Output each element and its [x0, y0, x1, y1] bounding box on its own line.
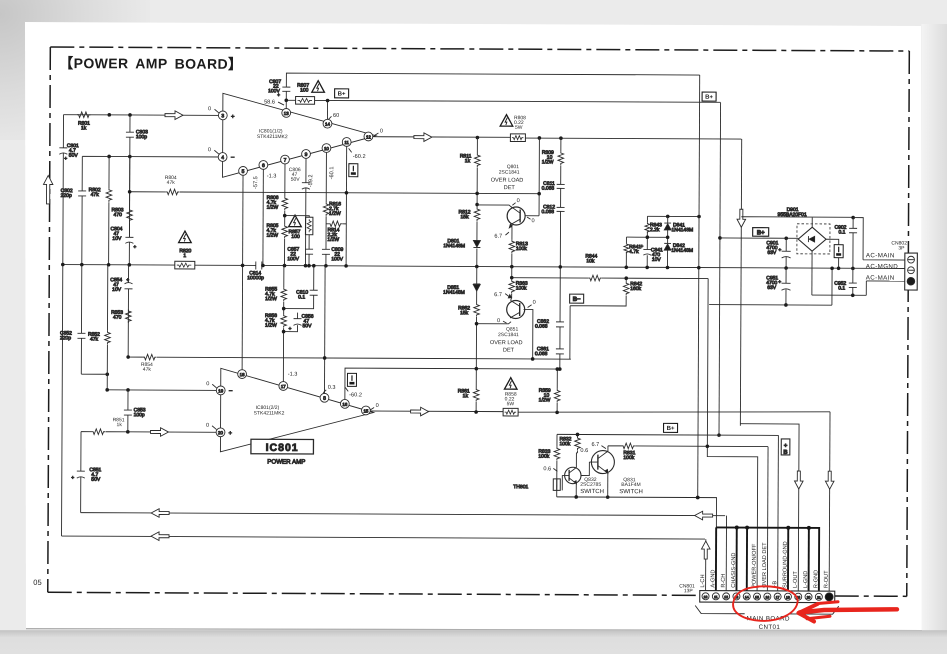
signal arrow down	[737, 209, 746, 227]
svg-text:3: 3	[221, 113, 224, 119]
capacitor C852	[60, 331, 86, 342]
junction node	[745, 526, 749, 530]
capacitor C804	[110, 226, 136, 250]
svg-text:+: +	[277, 93, 280, 99]
wire L-OUT route	[740, 424, 799, 592]
node 6.7V	[591, 442, 606, 449]
svg-text:+: +	[231, 114, 235, 120]
resistor R855	[265, 286, 286, 302]
svg-text:47k: 47k	[143, 367, 152, 373]
junction node	[538, 136, 542, 140]
svg-text:1k: 1k	[465, 158, 471, 164]
capacitor C901	[766, 238, 790, 268]
pin 16	[340, 399, 349, 408]
svg-text:2SC2785: 2SC2785	[580, 482, 601, 488]
svg-text:20: 20	[807, 596, 811, 600]
pin 3	[218, 111, 235, 120]
svg-text:60: 60	[333, 113, 339, 119]
warning triangle R807	[312, 81, 325, 93]
pin 13	[282, 108, 291, 117]
resistor R816	[323, 201, 341, 217]
capacitor C806 label	[289, 167, 301, 183]
svg-text:BA1F4M: BA1F4M	[621, 482, 640, 488]
signal arrow down R-OUT	[825, 471, 834, 489]
svg-text:12: 12	[724, 595, 728, 599]
junction node	[475, 322, 479, 326]
resistor R842	[570, 278, 643, 360]
svg-text:100: 100	[300, 87, 309, 93]
junction node	[476, 136, 480, 140]
signal arrow left	[151, 532, 169, 541]
svg-text:POWER-ON/OFF: POWER-ON/OFF	[752, 543, 758, 588]
svg-text:10V: 10V	[112, 287, 122, 293]
wire pin7 column	[284, 164, 286, 265]
wire rail-3 y=293.5	[812, 281, 866, 296]
svg-text:63V: 63V	[767, 285, 777, 291]
IC label	[257, 128, 288, 140]
junction node	[807, 526, 811, 530]
pin 12	[364, 132, 373, 141]
main bus wire (y=266.6 level)	[63, 265, 905, 269]
node -60.2V pin11	[349, 148, 366, 160]
svg-text:R-OUT: R-OUT	[824, 570, 830, 588]
pin 11	[342, 138, 351, 147]
svg-text:47k: 47k	[167, 180, 176, 186]
svg-text:1k: 1k	[463, 393, 469, 399]
svg-text:-1.3: -1.3	[267, 174, 277, 180]
wire pin17 column	[282, 266, 285, 382]
svg-text:AC-MGND: AC-MGND	[866, 263, 899, 270]
signal arrow left R-CH	[695, 511, 713, 520]
junction node	[717, 433, 721, 437]
svg-text:10000p: 10000p	[247, 275, 264, 281]
wire pin13 column up + C807	[286, 73, 699, 110]
wire feedback line L1 (y=193.8 level at x=478)	[130, 189, 541, 197]
transistor Q832 (small)	[565, 467, 581, 483]
svg-text:STK4211MK2: STK4211MK2	[257, 134, 288, 140]
svg-text:0: 0	[497, 318, 500, 324]
node 0V pin20	[206, 423, 217, 430]
svg-text:0.1: 0.1	[298, 294, 305, 300]
svg-text:STK4211MK2: STK4211MK2	[254, 410, 285, 416]
op-amp IC801 2/2 triangle	[220, 368, 373, 452]
Q831 label	[619, 477, 643, 495]
junction node	[784, 266, 788, 270]
pin 8	[320, 393, 329, 402]
junction node	[241, 264, 245, 268]
signal arrow left	[151, 509, 169, 518]
svg-text:5: 5	[242, 169, 245, 175]
junction node	[323, 356, 327, 360]
Q832 label	[580, 477, 604, 495]
svg-text:0: 0	[376, 403, 379, 409]
junction node	[304, 264, 308, 268]
capacitor C803	[126, 115, 148, 157]
wire pin9 column + C806	[302, 158, 311, 265]
svg-text:220p: 220p	[60, 335, 71, 341]
svg-text:50V: 50V	[303, 323, 313, 329]
B+ box 3	[753, 228, 769, 237]
wire bridge right to I-box	[826, 239, 839, 268]
capacitor C811	[542, 181, 565, 192]
B+ box 5 vertical	[781, 439, 790, 456]
warning triangle R820	[179, 231, 192, 243]
resistor R811	[460, 153, 480, 167]
node 0V pin3	[208, 106, 219, 113]
node 0V pin4	[208, 147, 219, 154]
svg-text:1/2W: 1/2W	[265, 296, 277, 302]
wire pin5-pin18 column	[241, 175, 244, 369]
signal arrow up on left border	[43, 175, 53, 204]
wire pin8 column	[324, 266, 327, 393]
wire Q831 base link	[581, 462, 598, 476]
svg-text:18: 18	[786, 595, 790, 599]
transistor Q801	[507, 207, 525, 228]
svg-text:7: 7	[284, 158, 287, 164]
svg-text:11: 11	[714, 595, 718, 599]
junction node	[283, 264, 287, 268]
wire R811 column	[476, 137, 479, 266]
svg-text:1/2W: 1/2W	[266, 233, 278, 239]
signal arrow right	[411, 407, 429, 416]
op-amp IC801 1/2 triangle	[223, 93, 377, 178]
junction node	[697, 266, 701, 270]
svg-text:13P: 13P	[684, 588, 694, 594]
junction node	[784, 236, 788, 240]
svg-text:L-OUT: L-OUT	[793, 571, 799, 588]
pin 10	[322, 144, 331, 153]
svg-text:100p: 100p	[134, 412, 145, 418]
node 0V pin19	[206, 381, 217, 388]
wire pin11 L-GND thick	[808, 528, 810, 592]
junction node	[127, 263, 131, 267]
junction node	[284, 98, 288, 102]
wire R-ch input (y=433)	[81, 429, 221, 435]
transistor Q851	[507, 295, 525, 319]
capacitor C862	[535, 319, 564, 330]
svg-text:+: +	[71, 475, 74, 481]
wire pin12 line vertical x=740.8	[740, 139, 741, 426]
warning triangle R808	[500, 115, 513, 127]
thermistor TH801	[513, 479, 560, 491]
resistor R858 (box in output line)	[503, 408, 518, 416]
svg-text:0.6: 0.6	[543, 466, 551, 472]
svg-text:B+: B+	[757, 230, 765, 236]
svg-text:17: 17	[281, 384, 286, 389]
junction node	[282, 307, 286, 311]
border frame dash-dot	[48, 47, 910, 596]
junction node	[312, 264, 316, 268]
svg-text:15: 15	[755, 595, 759, 599]
capacitor C801	[58, 115, 80, 536]
pin 15	[361, 406, 370, 415]
svg-text:AC-MAIN: AC-MAIN	[866, 252, 895, 259]
svg-text:5W: 5W	[507, 401, 515, 407]
wire OVER LOAD DET route	[766, 447, 769, 592]
wire L-ch input (y=117 level)	[64, 114, 223, 117]
junction node	[646, 235, 650, 239]
svg-text:OVER LOAD DET: OVER LOAD DET	[762, 542, 768, 588]
resistor R862	[458, 303, 479, 317]
svg-text:955BA20F01: 955BA20F01	[778, 212, 807, 218]
resistor R856	[265, 313, 286, 329]
svg-text:1N4148M: 1N4148M	[443, 290, 465, 296]
capacitor C856	[288, 314, 313, 333]
svg-text:10V: 10V	[112, 236, 122, 242]
svg-text:470: 470	[114, 212, 123, 218]
wire R807 B+ line (y=101)	[286, 100, 720, 102]
junction node	[474, 410, 478, 414]
junction node	[475, 367, 479, 371]
svg-text:CHASIS-GND: CHASIS-GND	[731, 553, 737, 588]
svg-text:+: +	[288, 326, 291, 332]
wire C854 column	[127, 265, 129, 357]
svg-text:DET: DET	[503, 348, 515, 354]
junction node	[697, 215, 701, 219]
svg-text:0.068: 0.068	[542, 186, 555, 192]
capacitor C802	[61, 188, 87, 199]
svg-text:100: 100	[291, 234, 300, 240]
svg-text:AC-MAIN: AC-MAIN	[866, 275, 895, 282]
junction node	[696, 496, 700, 500]
junction node	[706, 444, 710, 448]
svg-text:1k: 1k	[81, 125, 87, 131]
resistor R863	[509, 280, 528, 294]
wire pin12 output line (y=137.5)	[373, 137, 742, 139]
resistor R831 (horizontal)	[621, 443, 635, 461]
node 58.6V	[264, 99, 284, 105]
GND bus thick	[716, 527, 819, 591]
junction node	[324, 264, 328, 268]
wire switch top line y=434	[557, 434, 778, 435]
wire AC-MAIN top line	[853, 218, 908, 260]
wire R809/C811/C812 column	[560, 138, 561, 369]
svg-text:0.068: 0.068	[535, 351, 548, 357]
wire +B route	[777, 435, 780, 591]
B- box	[570, 294, 584, 303]
svg-text:05: 05	[33, 578, 41, 587]
wire bridge top rail y=215.5	[741, 217, 853, 228]
B+ box 1	[335, 89, 349, 98]
svg-text:【POWER AMP BOARD】: 【POWER AMP BOARD】	[59, 55, 242, 72]
wire D841/D842 column	[666, 216, 668, 267]
junction node	[645, 266, 649, 270]
wire pin14 column	[326, 100, 328, 119]
junction node	[784, 303, 788, 307]
junction node	[126, 388, 130, 392]
junction node	[128, 190, 132, 194]
wire R852 column	[106, 265, 109, 390]
junction node	[531, 357, 535, 361]
svg-text:58.6: 58.6	[264, 99, 275, 105]
svg-text:A-GND: A-GND	[710, 570, 716, 588]
capacitor C853	[124, 390, 146, 432]
resistor R809	[542, 150, 564, 166]
resistor R802	[89, 187, 112, 202]
svg-text:CNT01: CNT01	[759, 624, 781, 631]
capacitor C807	[268, 79, 290, 99]
diode D851	[443, 284, 480, 296]
wire feedback line L2 (y=358.7)	[128, 354, 571, 362]
connector CN801 body	[700, 591, 835, 603]
IC label	[254, 405, 285, 417]
svg-text:2SC1841: 2SC1841	[499, 170, 520, 176]
wire R802 column	[108, 156, 111, 264]
svg-text:16: 16	[765, 595, 769, 599]
svg-text:0: 0	[517, 198, 520, 204]
svg-text:TH801: TH801	[513, 484, 528, 490]
warning triangle R857	[289, 215, 302, 227]
svg-text:20: 20	[218, 430, 223, 435]
svg-text:L-GND: L-GND	[803, 571, 809, 588]
pin 9	[302, 150, 311, 159]
junction node	[283, 214, 287, 218]
svg-text:100V: 100V	[287, 256, 299, 262]
resistor R804 label	[165, 175, 177, 186]
svg-text:100V: 100V	[331, 256, 343, 262]
pin 5	[239, 166, 248, 175]
wire pin2 A-GND thick	[715, 527, 717, 591]
wire B+ vertical x=719.5	[719, 102, 721, 435]
svg-text:21: 21	[817, 596, 821, 600]
svg-text:14: 14	[325, 122, 330, 127]
wire h-link y=215.5 to B+ vertical	[647, 215, 699, 217]
pin 6	[259, 161, 268, 170]
svg-text:19: 19	[218, 388, 223, 393]
svg-text:1: 1	[183, 253, 186, 259]
current box symbol	[834, 245, 843, 258]
svg-text:1/2W: 1/2W	[539, 397, 551, 403]
diode D841	[664, 222, 693, 233]
wire Q832 base link	[562, 475, 569, 490]
resistor R814 (horizontal)	[326, 221, 346, 243]
wire C852 branch	[81, 265, 108, 375]
svg-text:1/2W: 1/2W	[267, 205, 279, 211]
svg-text:10k: 10k	[586, 258, 595, 264]
wire R-ch return line (y=515.5)	[81, 513, 725, 516]
svg-text:0: 0	[533, 300, 536, 306]
svg-text:100k: 100k	[516, 246, 527, 252]
wire R-OUT route down	[828, 412, 831, 592]
wire C804 column	[128, 157, 131, 265]
svg-text:B−: B−	[573, 297, 581, 303]
junction node	[282, 330, 286, 334]
svg-text:17: 17	[776, 595, 780, 599]
wire Q832 emitter down	[575, 483, 577, 496]
svg-text:0: 0	[208, 147, 211, 153]
svg-text:2SC1841: 2SC1841	[498, 332, 519, 338]
svg-text:1/2W: 1/2W	[265, 323, 277, 329]
junction node	[326, 99, 330, 103]
junction node	[107, 155, 111, 159]
wire R843 column	[646, 216, 648, 267]
svg-text:100k: 100k	[559, 441, 570, 447]
svg-text:100k: 100k	[623, 455, 634, 461]
capacitor C857	[287, 247, 313, 263]
wire C856 branch	[284, 313, 298, 332]
IC801 name box	[251, 439, 314, 465]
wire bus-2 (y=277.5)	[512, 277, 708, 280]
junction node	[80, 263, 84, 267]
wire pin16 column + feed line (y=368.5)	[345, 368, 561, 400]
node 0V Q801 base	[527, 217, 535, 224]
svg-text:0.068: 0.068	[542, 209, 555, 215]
svg-text:6.7: 6.7	[494, 292, 502, 298]
node 0V pin12 out	[374, 129, 383, 136]
node 6.7V	[494, 232, 509, 240]
svg-text:47k: 47k	[90, 336, 99, 342]
junction node	[666, 235, 670, 239]
junction node	[606, 495, 610, 499]
capacitor C861	[535, 346, 564, 357]
svg-text:-59.2: -59.2	[308, 174, 314, 187]
svg-text:13: 13	[284, 111, 289, 116]
svg-text:-60.2: -60.2	[349, 392, 362, 398]
junction node	[537, 192, 541, 196]
junction node	[108, 113, 112, 117]
junction node	[307, 264, 311, 268]
svg-text:0: 0	[531, 218, 534, 224]
svg-text:DET: DET	[504, 185, 516, 191]
current box symbol	[349, 164, 358, 177]
wire bottom rail y=303.5	[709, 268, 832, 305]
svg-text:5W: 5W	[515, 125, 523, 131]
svg-text:1/2W: 1/2W	[329, 211, 341, 217]
signal arrow right	[165, 111, 183, 120]
capacitor C812	[542, 204, 565, 215]
svg-text:9: 9	[305, 152, 308, 158]
svg-text:4: 4	[221, 155, 224, 161]
junction node	[128, 113, 132, 117]
junction node	[718, 236, 722, 240]
svg-text:R-GND: R-GND	[813, 570, 819, 588]
wire pin19 input (y=392)	[107, 389, 220, 392]
capacitor C952	[834, 268, 857, 295]
junction node	[261, 264, 265, 268]
svg-text:10: 10	[704, 595, 708, 599]
junction node	[558, 367, 562, 371]
svg-text:SWITCH: SWITCH	[619, 489, 643, 495]
svg-text:6: 6	[262, 163, 265, 169]
resistor R854 label	[141, 362, 153, 373]
wire Q801 collector line	[477, 205, 512, 207]
svg-text:+: +	[778, 247, 781, 253]
svg-text:10V: 10V	[652, 257, 662, 263]
svg-text:18: 18	[240, 372, 245, 377]
wire Q851 base to L2	[523, 310, 533, 359]
junction node	[105, 388, 109, 392]
wire Q851 collector line	[477, 321, 512, 323]
wire L-CH down to pin1	[705, 539, 707, 591]
junction node	[126, 430, 130, 434]
wire Q801 emitter to R813	[510, 225, 512, 267]
wire Q801 base column from L1	[524, 138, 539, 216]
junction node bus	[475, 265, 479, 269]
svg-text:-57.5: -57.5	[253, 176, 259, 189]
wire h-link y=236.4	[626, 236, 667, 238]
junction node	[851, 216, 855, 220]
resistor R857 (box)	[288, 217, 313, 240]
resistor R833	[538, 447, 559, 461]
node 6.7V	[494, 292, 509, 298]
resistor R858 label	[505, 392, 517, 408]
node 0V Q851 col	[497, 318, 507, 324]
junction node	[105, 372, 109, 376]
resistor R853	[111, 309, 131, 323]
svg-text:0: 0	[206, 423, 209, 429]
junction node	[126, 355, 130, 359]
svg-text:14: 14	[745, 595, 749, 599]
